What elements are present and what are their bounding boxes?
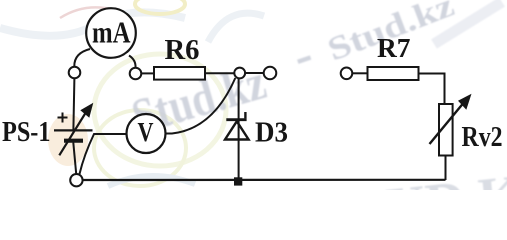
- battery adjust arrow: [59, 113, 85, 155]
- wire R7 to corner: [419, 73, 446, 75]
- wire terminal A1 down to battery: [73, 78, 74, 129]
- node B junction square: [234, 177, 242, 185]
- wire voltmeter left to terminal C: [80, 134, 127, 174]
- resistor R6 body: [154, 67, 205, 80]
- wire ammeter left lead: [74, 49, 90, 67]
- diode D3 cathode bar: [226, 118, 246, 121]
- watermark pale blue swirl top mid: [208, 13, 264, 42]
- battery PS-1 short plate: [64, 139, 83, 143]
- node A junction circle: [234, 68, 245, 79]
- svg-text:V: V: [138, 117, 154, 147]
- diode D3 triangle: [225, 121, 249, 139]
- battery plus sign: [58, 113, 68, 123]
- watermark pale band top-right corner: [434, 2, 502, 44]
- watermark pale blue arc under voltmeter: [108, 176, 195, 186]
- watermark pale blue swirl top left: [0, 12, 185, 35]
- battery adjust arrowhead: [80, 103, 93, 118]
- wire ammeter right lead: [129, 56, 136, 68]
- diode D3 zener tick: [244, 112, 246, 118]
- svg-text:PS-1: PS-1: [2, 117, 51, 148]
- resistor Rv2 body: [439, 104, 453, 156]
- svg-text:-: -: [285, 26, 320, 86]
- wire node A to terminal B1: [245, 72, 264, 74]
- wire diode branch: [238, 78, 240, 178]
- resistor Rv2 arrow: [430, 104, 464, 145]
- wire Rv2 to bottom rail: [445, 156, 447, 181]
- watermark pale yellow ring: [94, 54, 226, 166]
- resistor Rv2 arrowhead: [458, 94, 472, 110]
- wire voltmeter right to node A: [166, 78, 236, 134]
- terminal A2 (right under ammeter): [130, 68, 142, 80]
- svg-text:D3: D3: [255, 117, 288, 148]
- watermark pale red thin curve top: [60, 7, 115, 18]
- battery PS-1 long plate: [54, 129, 93, 131]
- wire terminal A2 to R6: [141, 72, 154, 74]
- svg-text:R6: R6: [165, 35, 200, 66]
- voltmeter U2 circle: [127, 114, 166, 153]
- ammeter U1 circle: [86, 8, 136, 58]
- svg-text:mA: mA: [92, 15, 131, 50]
- wire corner down to Rv2: [444, 73, 446, 105]
- svg-text:Rv2: Rv2: [462, 122, 503, 153]
- watermark pale yellow ellipse top: [135, 0, 185, 14]
- watermark pale yellow ring 2: [94, 110, 186, 186]
- wire terminal B2 to R7: [352, 72, 367, 74]
- wire R6 to node A: [205, 72, 234, 74]
- terminal B2: [341, 68, 353, 80]
- wire bottom rail: [83, 179, 446, 181]
- watermark pale orange blob: [48, 114, 88, 166]
- resistor R7 body: [368, 67, 419, 80]
- terminal C (bottom left node): [70, 174, 82, 186]
- svg-text:R7: R7: [377, 33, 411, 63]
- terminal B1: [264, 67, 277, 80]
- wire battery to terminal C: [73, 143, 76, 174]
- terminal A1 (left under ammeter): [69, 67, 81, 79]
